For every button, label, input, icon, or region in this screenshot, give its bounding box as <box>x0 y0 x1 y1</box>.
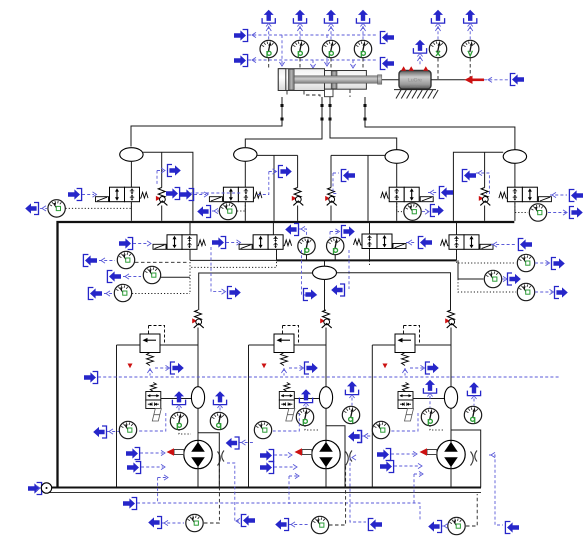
signal receiver branch3 <box>341 170 355 182</box>
gauge dotted link <box>430 426 444 430</box>
pump2 case loop <box>326 426 345 488</box>
signal source valve2 pilot <box>180 189 194 201</box>
branch plain return <box>367 155 369 220</box>
pump 2 output 2 <box>345 381 358 398</box>
check pilot signal line <box>180 192 242 194</box>
relief right link <box>160 344 198 346</box>
signal source valve1 pilot <box>68 189 82 201</box>
pipe volume to valve <box>244 161 246 187</box>
hydraulic cylinder body A <box>278 69 324 91</box>
pump frame left <box>371 345 373 487</box>
pump 2 pressure gauge <box>296 408 313 425</box>
pump 2 relief transmitter <box>305 362 318 374</box>
cylinder left cap <box>278 69 286 91</box>
signal transmitter qE <box>508 273 521 285</box>
directional valve C <box>354 234 407 249</box>
pump 3 volume <box>444 387 457 409</box>
pump 2 inlet check <box>320 310 332 328</box>
signal receiver drain 2 <box>368 519 382 531</box>
pilot line down <box>211 247 224 292</box>
drain dashed to pump3 <box>466 494 477 526</box>
pump 3 relief transmitter <box>426 362 439 374</box>
volume node bus <box>313 266 337 279</box>
signal source pump1 b <box>127 462 141 474</box>
valveD drain to gauge qE <box>458 278 484 280</box>
pump drive shaft arrow <box>420 448 437 456</box>
bus pressure gauge 1 <box>298 237 315 254</box>
pilot feedback dashed <box>391 413 418 431</box>
directional valve branch2 <box>209 187 262 202</box>
long drain signal line <box>137 503 420 521</box>
relief red marker <box>128 364 133 369</box>
secondary bus line <box>190 259 457 261</box>
pipe volume to valve <box>514 163 516 187</box>
signal output chamber pressure 1 <box>262 10 275 27</box>
bus2 weight <box>277 259 457 261</box>
signal line y60 <box>248 59 378 61</box>
pilot feedback dashed <box>138 413 166 431</box>
signal output friction <box>413 40 426 57</box>
check valve to bus <box>484 206 486 221</box>
cylinder body B <box>325 71 367 90</box>
pilot check valve branch2 <box>292 188 304 206</box>
check valve feed <box>484 152 486 187</box>
volume to pump <box>450 408 452 441</box>
signal output chamber pressure 3 <box>324 10 337 27</box>
signal source tank <box>28 483 42 495</box>
valve to volume link <box>161 398 192 400</box>
pump to rail <box>325 468 327 487</box>
signal transmitter check2 <box>279 166 292 178</box>
pump to rail <box>197 468 199 487</box>
pipe cylinder port4 to volume4 <box>365 97 515 151</box>
pipe cylinder port2 to volume2 <box>245 97 322 147</box>
gauge stem <box>306 255 308 261</box>
signal receiver branch4 <box>462 170 476 182</box>
pilot line down 2 <box>302 250 316 295</box>
pump 2 displacement valve <box>279 383 295 422</box>
signal source pump2 a <box>260 450 274 462</box>
sensor dotted branch1 <box>66 203 132 208</box>
signal drop to cylinder port 2 <box>312 60 314 66</box>
flow gauge branch2 <box>219 202 236 219</box>
branch loop pipe <box>453 152 503 221</box>
signal source piston command 2 <box>234 55 248 67</box>
signal receiver pump2 coupling <box>348 431 361 443</box>
pump 1 relief valve <box>140 326 165 366</box>
directional valve D <box>441 235 494 250</box>
signal transmitter bus 2 <box>342 226 355 238</box>
pump drive shaft arrow <box>295 448 312 456</box>
sensor link to cylinder <box>330 58 332 68</box>
pump 3 <box>437 440 465 468</box>
volume5 down to pump2 check <box>324 279 326 310</box>
signal source drain <box>123 498 137 510</box>
gauge qA <box>117 251 134 268</box>
pump 2 flow gauge <box>342 406 359 423</box>
signal receiver valveC pilot <box>418 237 432 249</box>
rod end cap <box>378 75 382 84</box>
pressure gauge p2 <box>291 40 308 57</box>
force signal line <box>484 79 508 81</box>
signal receiver drain 1 <box>241 515 255 527</box>
gauge dotted link <box>179 430 191 434</box>
signal receiver valveD pilot <box>518 239 532 251</box>
bus volume to pump3 check <box>336 273 450 310</box>
check to volume <box>197 328 199 388</box>
signal drop to cylinder port 4 <box>352 60 354 66</box>
valveC to bus2 <box>369 249 371 260</box>
pipe volume to valve <box>396 163 398 187</box>
LuGre friction mass block <box>399 71 431 90</box>
pump1 case loop <box>198 433 219 488</box>
svg-text:friction: friction <box>410 84 420 88</box>
signal transmitter pumpA <box>228 287 241 299</box>
pilot check valve bran4 <box>479 188 491 206</box>
directional valve branch3 <box>381 187 434 202</box>
signal transmitter qF <box>555 287 568 299</box>
pump 3 control transmitter <box>348 431 361 443</box>
pilot check valve branch3 <box>325 188 337 206</box>
branch loop pipe <box>143 152 193 221</box>
relief right link <box>415 344 451 346</box>
pump 1 control transmitter <box>93 426 106 438</box>
cylinder drain dashed 2 <box>286 91 288 97</box>
volume node branch2 <box>234 148 257 162</box>
signal source valveB pilot <box>212 237 226 249</box>
signal receiver top mid 1 <box>380 32 394 44</box>
signal receiver valve4 pilot <box>569 190 583 202</box>
flow gauge branch3 <box>404 203 421 220</box>
flow gauge branch1 <box>48 200 65 217</box>
ground hatching <box>394 90 438 99</box>
check to volume <box>450 328 452 388</box>
signal transmitter gauge2 <box>197 206 210 218</box>
gauge qF <box>517 283 534 300</box>
volume node branch3 <box>385 150 408 164</box>
signal transmitter gauge4 <box>570 207 583 219</box>
check valve to bus <box>161 206 163 221</box>
valve to bus pipe <box>514 202 516 221</box>
bus to valveD pipe <box>456 222 458 235</box>
volume to pump <box>197 408 199 441</box>
pump 2 volume <box>319 387 332 409</box>
bus pressure gauge 2 <box>327 237 344 254</box>
pump 3 output 2 <box>467 382 480 399</box>
dotted sensor qC <box>132 293 190 295</box>
valve to bus pipe <box>244 202 246 221</box>
relief right link <box>294 344 326 346</box>
pump 1 control gauge <box>119 421 136 438</box>
suction line volume to pump1 check <box>199 273 313 310</box>
check valve feed <box>161 152 163 187</box>
pump frame left <box>248 345 250 487</box>
pump 2 output 1 <box>299 389 312 406</box>
valveA to bus2 <box>189 249 191 260</box>
drain gauge transmitter 2 <box>275 519 288 531</box>
external force arrow <box>465 76 485 84</box>
valveD to bus2 <box>456 249 458 260</box>
gauge stem <box>334 255 336 261</box>
cylinder drain dashed <box>304 91 320 97</box>
pump 1 output 1 <box>172 391 185 408</box>
bus to volume5 <box>324 261 326 266</box>
gauge dotted link <box>305 426 319 430</box>
pump frame left <box>116 345 118 487</box>
gauge qD <box>517 254 534 271</box>
signal transmitter bus pressure <box>285 224 298 236</box>
check valve feed <box>297 155 299 187</box>
gauge qC <box>114 284 131 301</box>
branch loop pipe <box>331 154 385 156</box>
relief left link <box>117 344 141 346</box>
position gauge x <box>429 40 446 57</box>
valveC sensor dotted <box>369 251 371 266</box>
pump 3 relief valve <box>395 326 420 366</box>
signal transmitter gauge1 <box>25 203 38 215</box>
signal source pump3 a <box>377 449 391 461</box>
pump 3 displacement valve <box>398 383 414 422</box>
cylinder drain dashed 3 <box>349 90 351 98</box>
pump 3 pressure gauge <box>421 408 438 425</box>
dotted sensor valveB <box>191 250 276 267</box>
signal transmitter check1 <box>168 165 181 177</box>
check valve to bus <box>330 206 332 221</box>
pump 1 output 2 <box>213 391 226 408</box>
bus to valveA pipe <box>189 222 191 235</box>
pump3 case loop <box>451 430 481 488</box>
sensor dotted branch4 <box>515 203 528 213</box>
main return bus thick line <box>58 222 515 488</box>
drain dashed to pump1 <box>204 460 219 523</box>
valveB to bus2 <box>276 249 278 260</box>
pump1 coupling drop <box>227 463 239 521</box>
sensor link to mass <box>437 58 439 79</box>
bottom rail thick <box>46 487 481 489</box>
pump 2 relief valve <box>274 326 299 366</box>
pilot check valve branch1 <box>156 188 168 206</box>
pipe cylinder port1 to volume1 <box>131 97 282 147</box>
signal output position <box>431 10 444 27</box>
pilot feedback dashed <box>273 413 299 431</box>
dashed sensor to valveA pipe <box>135 261 189 263</box>
signal source pump3 b <box>380 461 394 473</box>
signal source pump2 b <box>260 462 274 474</box>
pipe cylinder port3 to volume3 <box>330 97 397 150</box>
relief red marker <box>262 364 267 369</box>
signal source check1 pilot <box>166 188 180 200</box>
piston B <box>331 71 337 89</box>
pump3 coupling signal <box>489 455 503 525</box>
sensor link to mass <box>469 58 471 79</box>
valve to bus pipe <box>130 202 132 221</box>
sensor dotted branch3 <box>397 203 402 212</box>
signal transmitter qD <box>552 258 565 270</box>
drain gauge 3 <box>448 517 465 534</box>
pump 1 volume <box>191 387 204 409</box>
drain gauge transmitter 1 <box>148 517 161 529</box>
valve to volume link <box>294 398 319 400</box>
rotary coupling <box>346 451 353 466</box>
drain gauge transmitter 3 <box>428 521 441 533</box>
pressure gauge p3 <box>322 40 339 57</box>
pump 1 pressure gauge <box>170 412 187 429</box>
long pilot dashed line <box>98 376 560 378</box>
signal drop to cylinder port 3 <box>326 35 328 64</box>
pump 1 displacement valve <box>146 383 162 422</box>
cylinder port block <box>325 89 334 97</box>
pump 2 control transmitter <box>226 437 239 449</box>
gauge qE <box>484 270 501 287</box>
signal receiver gauge qC <box>88 288 102 300</box>
pump 1 inlet check <box>192 310 204 328</box>
pump 3 control gauge <box>372 421 389 438</box>
signal source piston command 1 <box>234 30 248 42</box>
pressure gauge p1 <box>260 40 277 57</box>
signal source valveA pilot <box>119 238 133 250</box>
pipe volume to valve <box>130 161 132 187</box>
signal receiver drain 3 <box>505 522 519 534</box>
directional valve branch4 <box>499 187 552 202</box>
directional valve B <box>239 235 292 250</box>
bus to valveC pipe <box>369 222 371 234</box>
signal receiver top mid 2 <box>380 58 394 70</box>
pump2 coupling signal <box>350 458 366 523</box>
sensor link to cylinder <box>362 58 364 68</box>
directional valve branch1 <box>96 187 149 202</box>
valve to volume link <box>413 398 444 400</box>
pump 1 flow gauge <box>210 412 227 429</box>
piston rod <box>294 76 377 83</box>
bus to valveB pipe <box>272 222 274 235</box>
drain dashed to pump2 <box>329 465 346 525</box>
pump to rail <box>450 468 452 487</box>
load line to force input <box>431 79 467 81</box>
sensor link to cylinder <box>268 58 270 68</box>
pump 3 flow gauge <box>464 406 481 423</box>
pump drive shaft arrow <box>167 448 184 456</box>
piston A <box>288 69 294 90</box>
branch plain return <box>273 155 275 220</box>
volume to pump <box>325 408 327 441</box>
velocity gauge v <box>462 40 479 57</box>
signal drop to cylinder port 1 <box>281 35 283 64</box>
pump 3 inlet check <box>445 310 457 328</box>
rotary coupling <box>218 451 225 466</box>
svg-text:LuGre: LuGre <box>408 78 422 84</box>
branch loop pipe <box>257 154 298 156</box>
signal receiver force <box>510 74 524 86</box>
pump 1 relief transmitter <box>171 362 184 374</box>
bottom rail thin <box>46 492 481 494</box>
signal transmitter gauge3 <box>431 205 444 217</box>
rod link to mass <box>382 79 400 81</box>
dotted drop valveA pipe <box>189 262 191 294</box>
signal output chamber pressure 2 <box>293 10 306 27</box>
signal source pump1 a <box>126 448 140 460</box>
signal line y35 <box>248 34 378 36</box>
check to volume <box>325 328 327 388</box>
signal receiver gauge qA <box>83 255 97 267</box>
volume node branch4 <box>503 150 526 164</box>
signal output chamber pressure 4 <box>356 10 369 27</box>
signal transmitter bus volume <box>331 284 344 296</box>
flow gauge branch4 <box>529 204 546 221</box>
drain gauge 2 <box>311 516 328 533</box>
mass contact triangles <box>401 66 428 70</box>
dotted sensor qD <box>457 252 517 263</box>
gauge qB <box>143 266 160 283</box>
check valve to bus <box>297 206 299 221</box>
pump 2 control gauge <box>254 421 271 438</box>
volume node branch1 <box>120 148 143 162</box>
sensor link to cylinder <box>299 58 301 68</box>
pressure gauge p4 <box>354 40 371 57</box>
drain gauge 1 <box>186 514 203 531</box>
directional valve A <box>153 235 206 250</box>
gauge qB link <box>161 276 190 278</box>
junction dots on trunk <box>281 104 367 121</box>
dotted sensor qF <box>458 279 516 292</box>
relief left link <box>249 344 275 346</box>
signal source relief pilot <box>84 372 98 384</box>
signal transmitter pumpB <box>304 289 317 301</box>
pump 1 <box>184 440 212 468</box>
signal output velocity <box>464 10 477 27</box>
sensor dotted branch2 <box>237 203 245 211</box>
signal receiver gauge qB <box>107 271 121 283</box>
pump 2 <box>312 440 340 468</box>
signal receiver valve3 pilot <box>439 187 453 199</box>
relief red marker <box>383 364 388 369</box>
rotary coupling <box>471 451 478 466</box>
tank node circle <box>41 483 51 493</box>
check valve feed <box>330 155 332 187</box>
signal drop to bus volume transmitter <box>348 250 350 289</box>
valve to bus pipe <box>396 202 398 221</box>
pump 3 output 1 <box>423 380 436 397</box>
relief left link <box>372 344 395 346</box>
